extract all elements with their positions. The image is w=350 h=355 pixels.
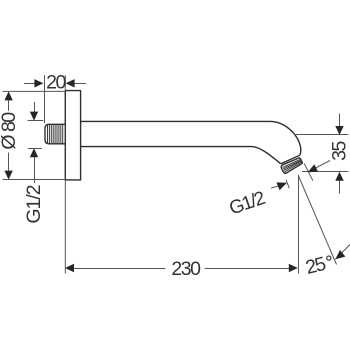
svg-text:35: 35: [329, 141, 350, 161]
svg-text:20: 20: [46, 72, 66, 94]
svg-text:230: 230: [171, 258, 201, 280]
svg-text:Ø 80: Ø 80: [0, 112, 20, 150]
svg-text:G1/2: G1/2: [23, 185, 45, 223]
